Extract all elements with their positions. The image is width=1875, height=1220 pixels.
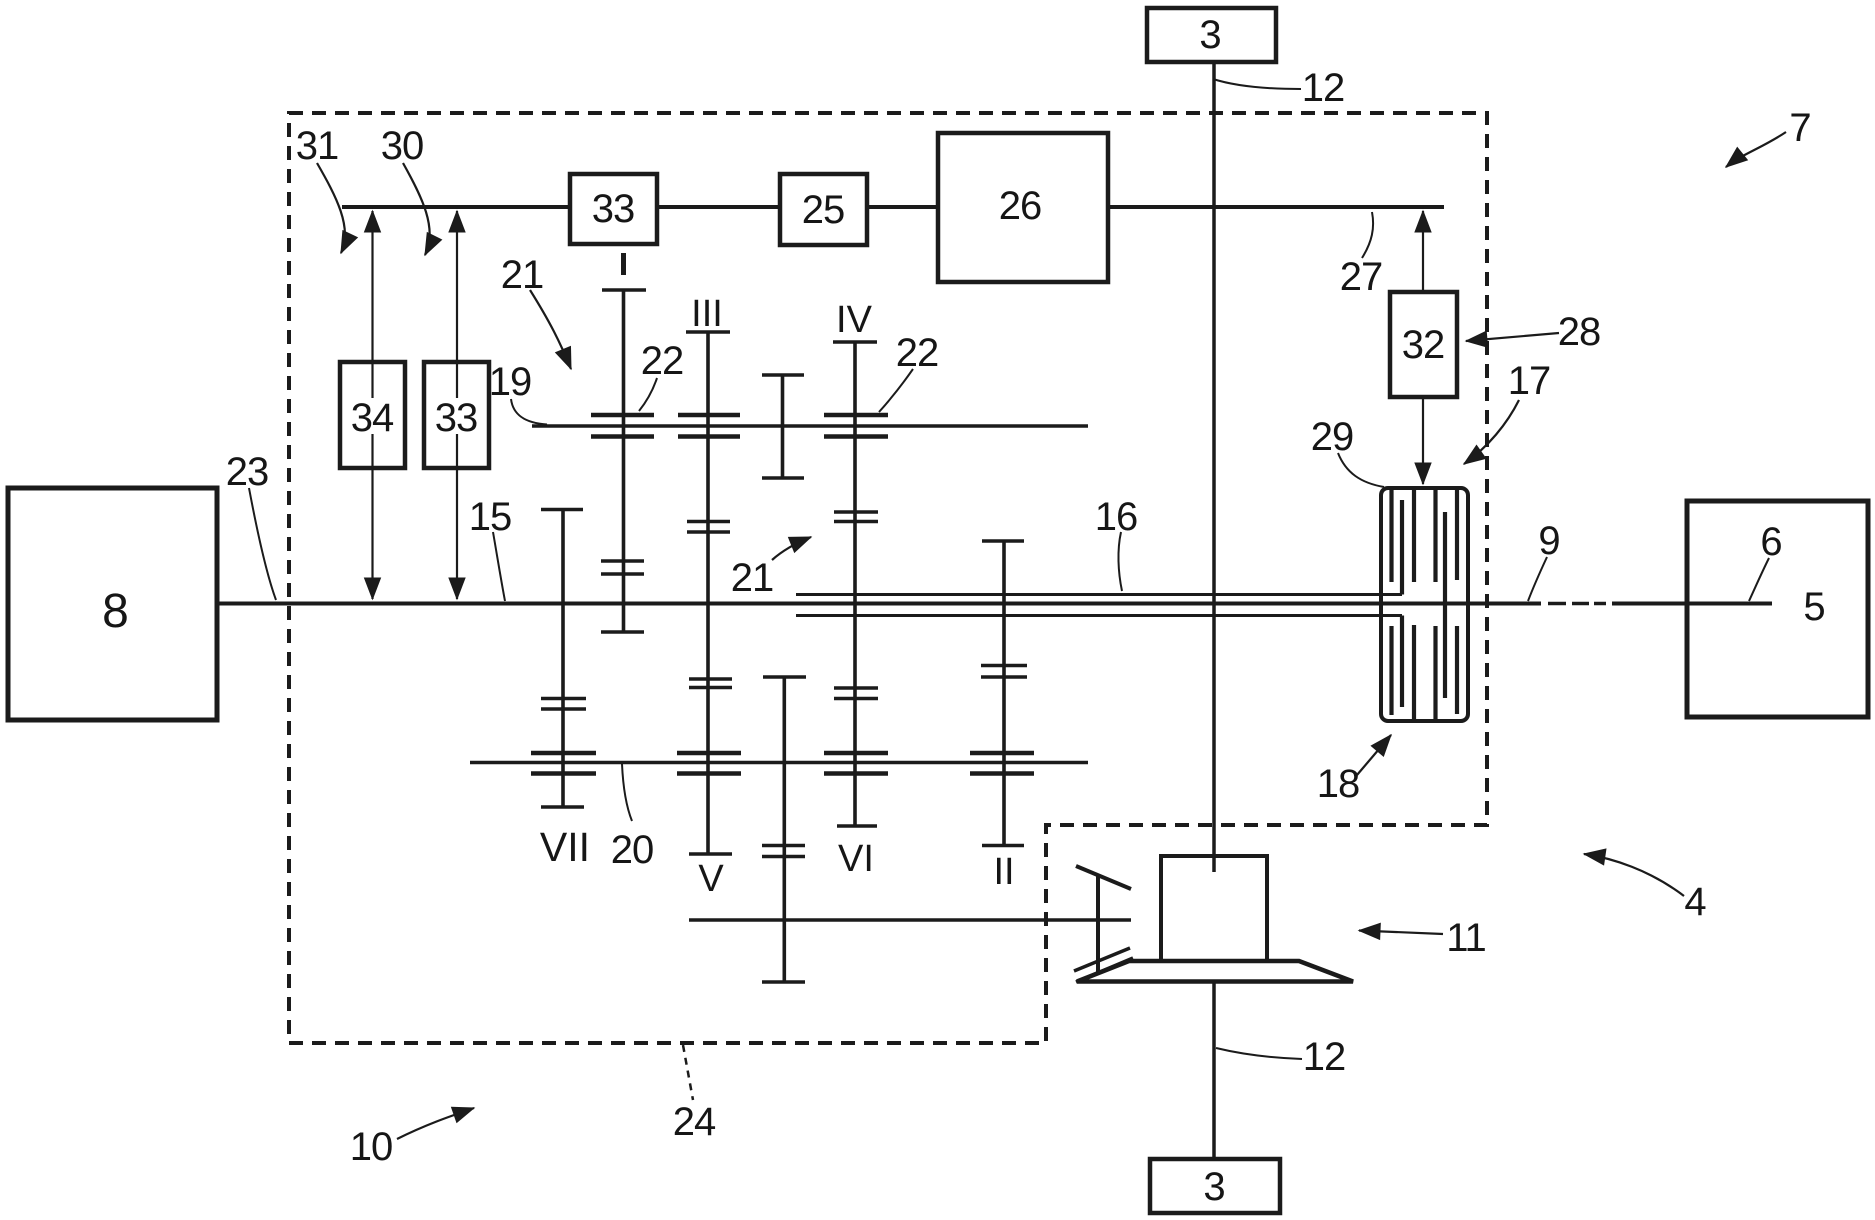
- svg-text:20: 20: [611, 828, 654, 872]
- arrow 27 line up from box 32: [1422, 211, 1424, 292]
- bevel pinion bottom tooth slants: [1074, 948, 1130, 971]
- svg-text:34: 34: [351, 396, 394, 440]
- shaft 9 into box 5: [1612, 602, 1772, 606]
- countershaft 19 (upper): [532, 424, 1088, 428]
- svg-text:15: 15: [469, 495, 512, 539]
- label 12 top + leader: [1213, 79, 1301, 89]
- text 33 on white backing: [435, 398, 478, 434]
- text 34 on white backing: [351, 398, 394, 434]
- box 26: [938, 133, 1108, 282]
- svg-text:18: 18: [1317, 762, 1360, 806]
- bevel pinion vertical: [1096, 876, 1100, 972]
- svg-text:III: III: [691, 293, 723, 335]
- svg-text:4: 4: [1684, 880, 1706, 924]
- hollow shaft 16 bottom line: [796, 614, 1402, 617]
- svg-text:25: 25: [802, 188, 845, 232]
- pinion shaft to final drive: [689, 918, 1131, 922]
- svg-text:33: 33: [592, 187, 635, 231]
- svg-text:22: 22: [641, 339, 684, 383]
- shaft 9 dash-dot segment: [1548, 602, 1566, 606]
- idler gear on countershaft 19: [762, 375, 804, 478]
- svg-text:26: 26: [999, 184, 1042, 228]
- svg-text:7: 7: [1789, 106, 1810, 150]
- box 33 (top, on control line): [570, 174, 657, 244]
- svg-text:31: 31: [296, 124, 339, 168]
- svg-text:8: 8: [102, 585, 128, 638]
- control arrow 31 (double headed): [371, 211, 373, 599]
- hollow shaft 16 top line: [796, 593, 1402, 596]
- svg-text:3: 3: [1199, 13, 1220, 57]
- svg-text:12: 12: [1302, 66, 1345, 110]
- final drive crown wheel box 11: [1161, 856, 1267, 961]
- svg-text:23: 23: [226, 450, 269, 494]
- svg-text:22: 22: [896, 331, 939, 375]
- svg-text:12: 12: [1303, 1035, 1346, 1079]
- clutch plates lower: [1392, 616, 1458, 722]
- countershaft 20 (lower): [470, 761, 1088, 765]
- box 33 (left actuator): [424, 362, 489, 468]
- svg-text:21: 21: [501, 253, 544, 297]
- gear I assembly: [591, 253, 654, 632]
- svg-text:29: 29: [1311, 415, 1354, 459]
- svg-text:16: 16: [1095, 495, 1138, 539]
- main input shaft 15: [217, 602, 1541, 606]
- box 3 (bottom): [1150, 1159, 1280, 1213]
- box 8 engine: [8, 488, 217, 720]
- wire: control line at top: [342, 205, 1444, 209]
- svg-text:VI: VI: [838, 838, 874, 880]
- svg-text:IV: IV: [836, 299, 873, 341]
- clutch 17 outline: [1381, 488, 1468, 721]
- svg-text:32: 32: [1402, 323, 1445, 367]
- svg-text:V: V: [698, 858, 724, 900]
- box 3 (top): [1147, 8, 1276, 62]
- svg-text:11: 11: [1446, 916, 1486, 960]
- gear IV / VI shaft assembly: [824, 342, 888, 826]
- svg-text:27: 27: [1340, 255, 1383, 299]
- box 25: [780, 174, 867, 245]
- dashed housing boundary 7/10: [289, 113, 1487, 1043]
- control arrow 30 (double headed): [456, 211, 458, 599]
- bevel pinion top tooth slant: [1076, 866, 1131, 889]
- gear VII assembly: [531, 510, 596, 808]
- output gear on lower shaft: [762, 677, 806, 982]
- box 32 actuator: [1390, 292, 1457, 397]
- gear II on hollow shaft 16: [970, 541, 1034, 846]
- svg-text:10: 10: [350, 1125, 393, 1169]
- svg-text:19: 19: [489, 360, 532, 404]
- crown wheel trapezoid: [1077, 961, 1353, 982]
- svg-text:3: 3: [1203, 1165, 1224, 1209]
- svg-text:24: 24: [673, 1100, 716, 1144]
- svg-text:33: 33: [435, 396, 478, 440]
- svg-text:17: 17: [1508, 359, 1551, 403]
- svg-text:30: 30: [381, 124, 424, 168]
- gear III / V shaft assembly: [677, 332, 741, 854]
- arrow from box 32 down to clutch: [1422, 397, 1424, 484]
- box 5 with label 6: [1687, 501, 1868, 717]
- shaft 12 (vertical, upper part): [1212, 62, 1216, 867]
- shaft 12 (vertical, lower part): [1212, 982, 1216, 1159]
- shaft stub inside crown box: [1212, 856, 1216, 872]
- leader 6: [1749, 558, 1769, 601]
- svg-text:6: 6: [1760, 520, 1781, 564]
- svg-text:II: II: [993, 851, 1014, 893]
- svg-text:21: 21: [731, 556, 774, 600]
- svg-text:5: 5: [1803, 585, 1824, 629]
- svg-text:VII: VII: [540, 824, 590, 870]
- box 34 actuator: [340, 362, 405, 468]
- svg-text:28: 28: [1558, 310, 1601, 354]
- svg-text:9: 9: [1538, 519, 1559, 563]
- clutch plates upper: [1392, 489, 1458, 698]
